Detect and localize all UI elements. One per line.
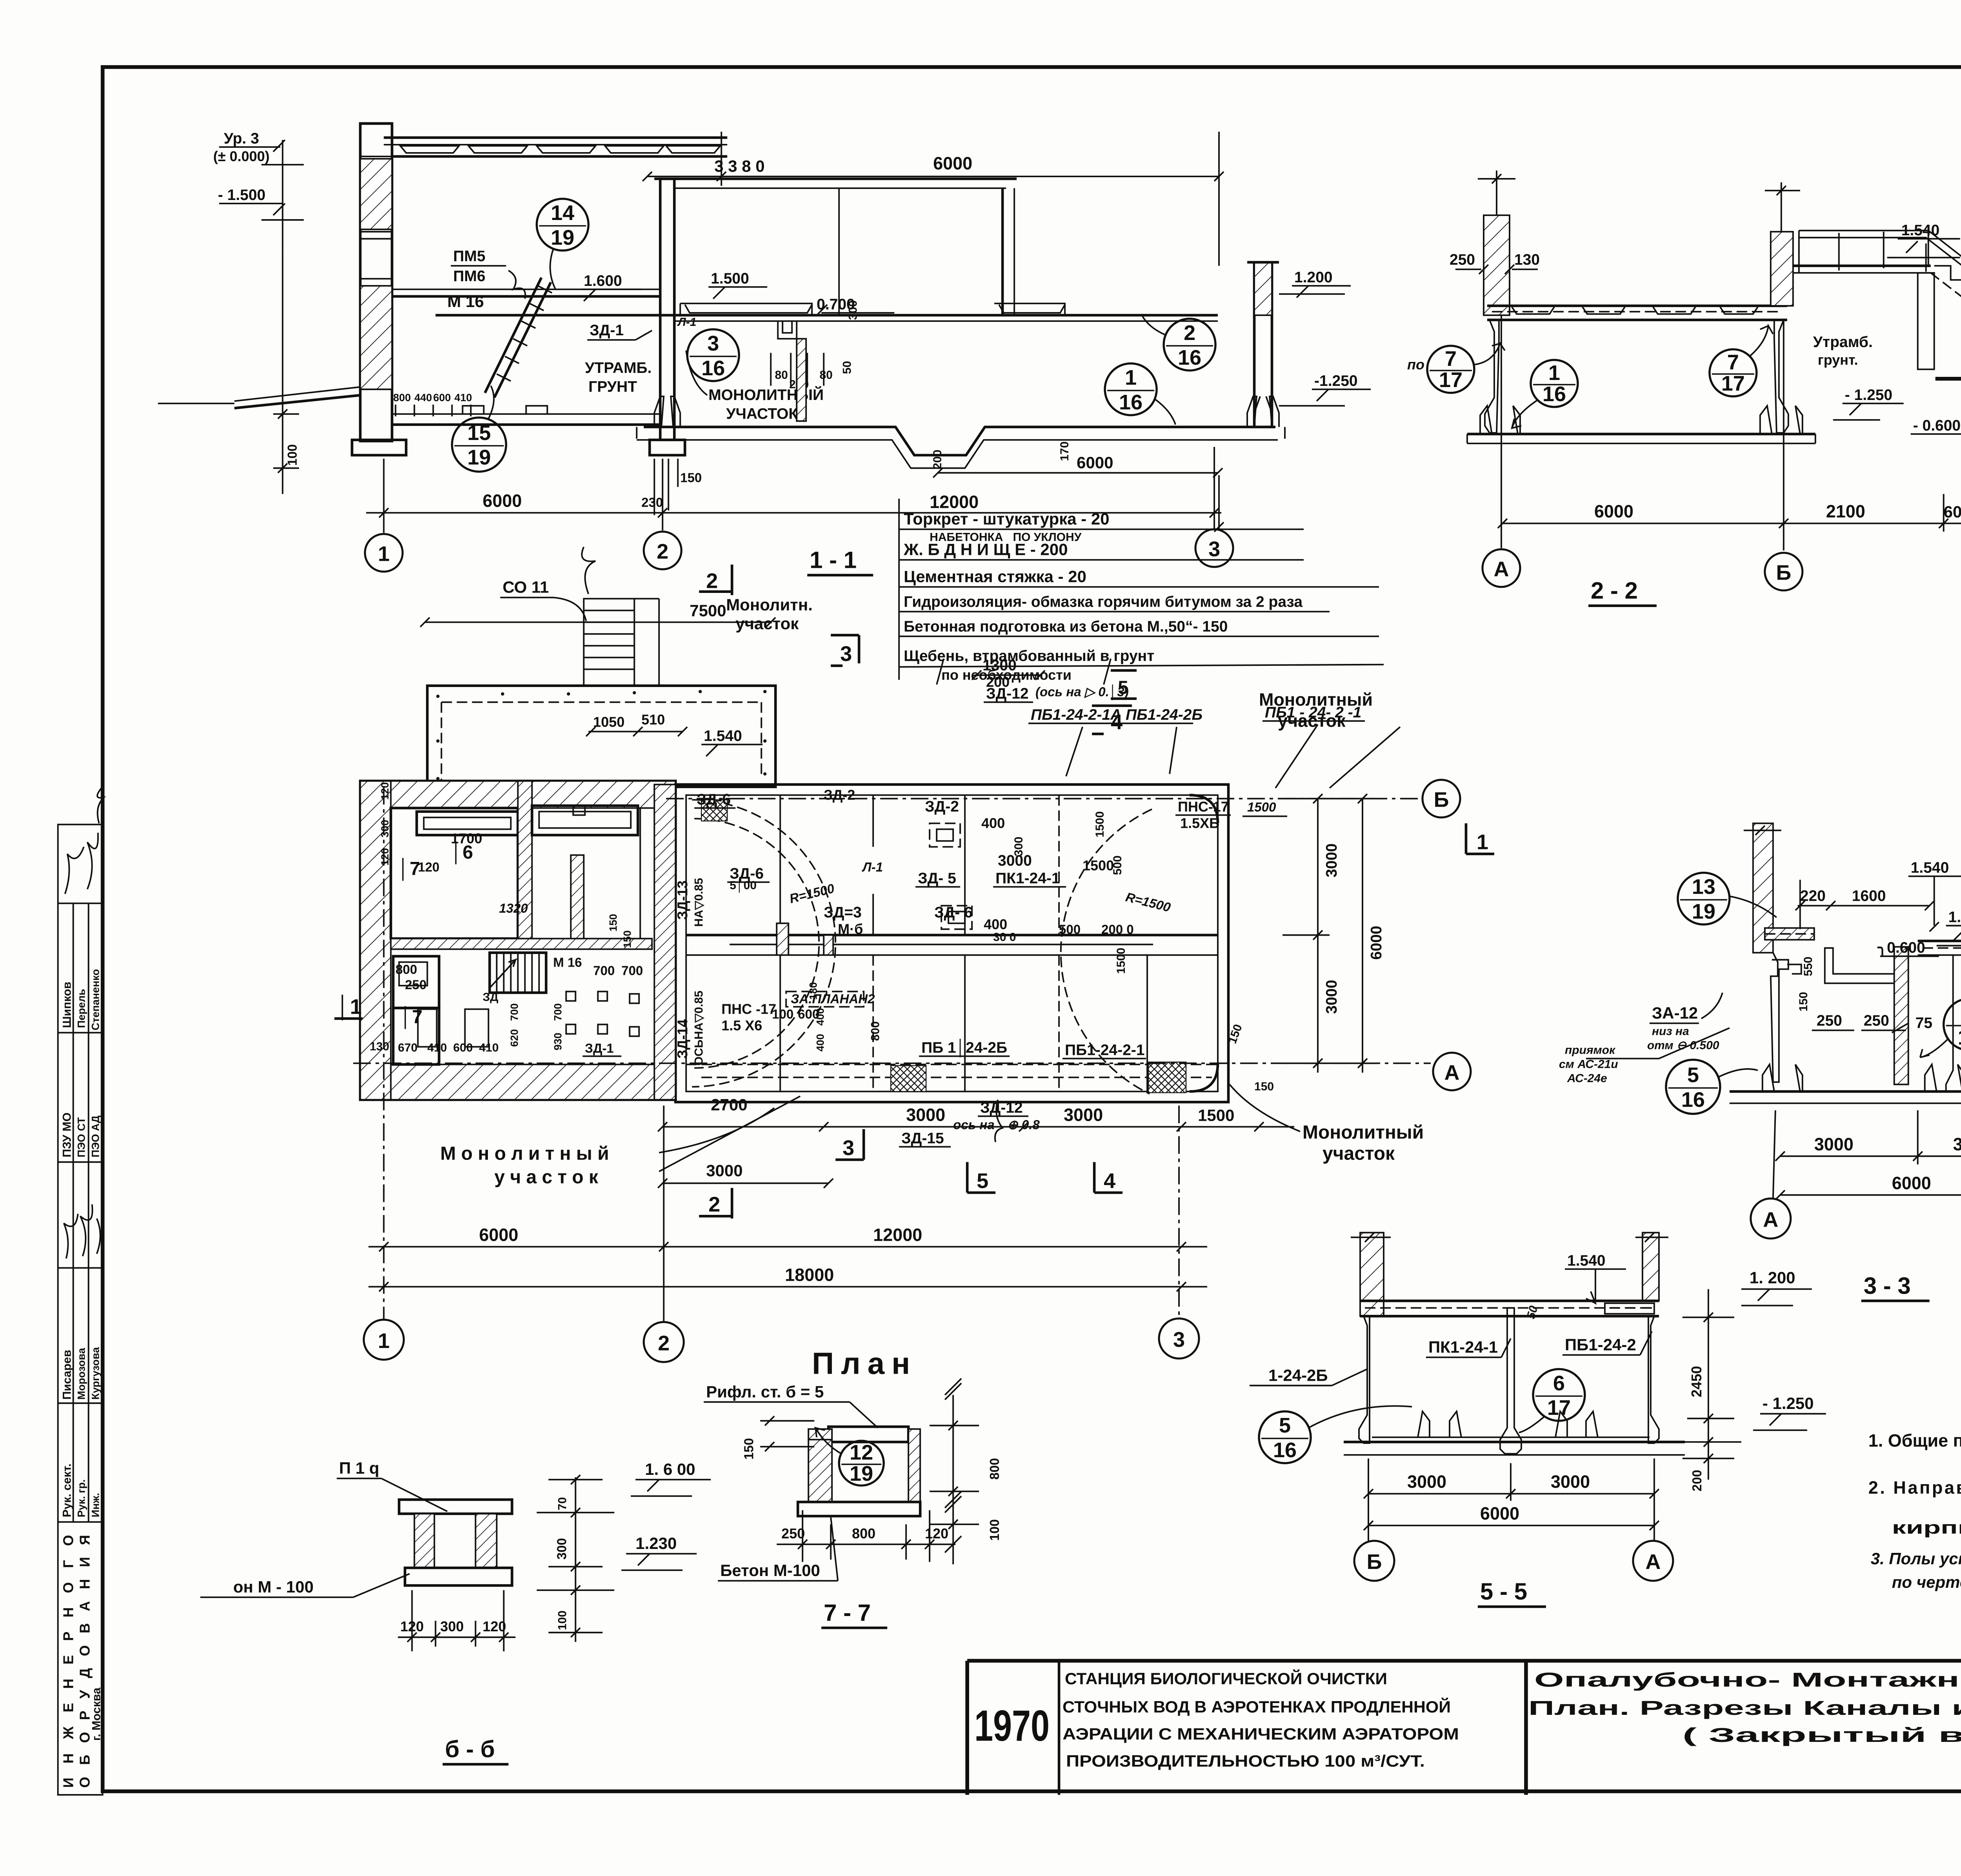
- svg-text:550: 550: [1802, 956, 1815, 976]
- left hatched column: [1360, 1232, 1384, 1316]
- svg-text:100: 100: [556, 1611, 569, 1630]
- svg-text:3000: 3000: [706, 1161, 742, 1180]
- svg-text:1500: 1500: [1247, 800, 1276, 814]
- svg-text:1500: 1500: [1093, 811, 1106, 838]
- svg-text:17: 17: [1547, 1396, 1571, 1420]
- middle hatched column: [1771, 232, 1793, 306]
- svg-text:План: План: [812, 1346, 917, 1380]
- svg-text:16: 16: [1543, 382, 1566, 406]
- fraction circle 15/19: [452, 386, 506, 472]
- svg-text:620: 620: [508, 1029, 520, 1047]
- svg-text:100: 100: [987, 1519, 1002, 1541]
- svg-text:1700: 1700: [451, 831, 482, 847]
- tank left wall: [1485, 320, 1499, 433]
- svg-text:120: 120: [379, 782, 391, 800]
- fraction circle 5/16: [1666, 1060, 1758, 1114]
- svg-text:700: 700: [593, 963, 615, 978]
- svg-text:150: 150: [621, 930, 633, 948]
- svg-text:2450: 2450: [1688, 1366, 1705, 1397]
- svg-text:6000: 6000: [1594, 502, 1634, 522]
- svg-text:17: 17: [1721, 372, 1745, 395]
- svg-text:1-24-2Б: 1-24-2Б: [1268, 1366, 1328, 1384]
- svg-text:ЗД- 6: ЗД- 6: [934, 904, 973, 921]
- wall between rooms hatched: [518, 781, 532, 939]
- steps: [1934, 266, 1961, 365]
- svg-text:по: по: [1407, 356, 1424, 373]
- svg-text:ЗА-12: ЗА-12: [1652, 1003, 1698, 1022]
- U channel shapes top: [1825, 948, 1906, 983]
- svg-text:3000: 3000: [1407, 1472, 1446, 1492]
- room2 inner hatched stub wall: [571, 855, 584, 939]
- hatched pier under monolith: [797, 339, 806, 421]
- center wall ПК1-24-1: [1500, 1308, 1521, 1454]
- small store rooms bottom left: [393, 956, 439, 1008]
- dashed mixing circle left: [692, 800, 835, 1087]
- svg-text:А: А: [1444, 1061, 1459, 1084]
- svg-text:130: 130: [370, 1040, 389, 1053]
- svg-text:2100: 2100: [1826, 502, 1865, 522]
- svg-text:16: 16: [1273, 1438, 1297, 1462]
- axis circle 2: [644, 532, 681, 569]
- walls: [1359, 1316, 1370, 1443]
- svg-text:Монолитный: Монолитный: [1302, 1122, 1424, 1143]
- svg-text:5│00: 5│00: [729, 878, 757, 893]
- svg-text:1: 1: [1548, 361, 1560, 385]
- svg-text:120: 120: [418, 860, 440, 874]
- right hatched column: [1643, 1232, 1659, 1301]
- svg-text:14: 14: [551, 201, 574, 225]
- svg-text:ПК1-24-1: ПК1-24-1: [995, 870, 1060, 887]
- svg-text:2. Направляющие перегородки: 2. Направляющие перегородки выполнить из: [1868, 1478, 1961, 1498]
- dashed arc right: [1061, 809, 1152, 1094]
- svg-text:-1.250: -1.250: [1314, 373, 1358, 389]
- svg-text:150: 150: [680, 471, 702, 485]
- svg-text:СТОЧНЫХ ВОД В АЭРОТЕНКАХ ПРОДЛ: СТОЧНЫХ ВОД В АЭРОТЕНКАХ ПРОДЛЕННОЙ: [1062, 1697, 1451, 1716]
- svg-text:А: А: [1645, 1550, 1661, 1574]
- svg-text:2 - 2: 2 - 2: [1591, 578, 1638, 604]
- fraction circle 6/17: [1519, 1369, 1585, 1432]
- svg-text:ЗД-2: ЗД-2: [925, 798, 959, 815]
- svg-text:⊕ 0.8: ⊕ 0.8: [1007, 1117, 1040, 1132]
- svg-text:- 0.600: - 0.600: [1913, 417, 1961, 434]
- svg-text:150: 150: [741, 1438, 756, 1460]
- fraction circle 2/16: [1142, 316, 1215, 371]
- svg-text:Б: Б: [1776, 561, 1791, 585]
- hatched bits near center channel: [777, 923, 788, 955]
- svg-text:230: 230: [641, 495, 663, 510]
- svg-text:150: 150: [607, 914, 619, 931]
- svg-text:16: 16: [1958, 1025, 1961, 1049]
- fraction circle 1/16: [1512, 360, 1578, 428]
- svg-text:1: 1: [378, 542, 390, 566]
- svg-text:12: 12: [850, 1441, 873, 1464]
- platform right part: [1918, 940, 1961, 941]
- column axis 2: [660, 179, 674, 440]
- svg-text:отм ⊖ 0.500: отм ⊖ 0.500: [1647, 1039, 1719, 1052]
- svg-text:3 - 3: 3 - 3: [1864, 1272, 1911, 1299]
- svg-text:3000: 3000: [1064, 1105, 1103, 1125]
- left column axis A hatched: [1484, 215, 1510, 315]
- svg-text:1 - 1: 1 - 1: [810, 547, 857, 573]
- wall base flares: [654, 396, 680, 427]
- handwritten visas top: [65, 833, 98, 894]
- svg-text:410: 410: [454, 392, 472, 404]
- svg-text:1.540: 1.540: [1901, 222, 1940, 239]
- svg-text:3000: 3000: [1953, 1134, 1961, 1154]
- svg-text:300: 300: [554, 1538, 569, 1560]
- handwritten visas middle: [64, 1204, 100, 1258]
- svg-text:ГРУНТ: ГРУНТ: [588, 378, 637, 395]
- room 2 upper fixture: [532, 806, 638, 835]
- rounded right end corners: [1190, 795, 1218, 1092]
- svg-text:Инж.: Инж.: [90, 1493, 102, 1517]
- svg-text:800: 800: [987, 1458, 1002, 1480]
- svg-text:3000: 3000: [1814, 1134, 1854, 1154]
- svg-text:1.150: 1.150: [1948, 909, 1961, 926]
- right vertical dim 800 100 with breaks: [953, 1395, 953, 1564]
- bottom dims: [1368, 1493, 1654, 1494]
- svg-text:см АС-21и: см АС-21и: [1559, 1058, 1618, 1071]
- axis circles: [1751, 1198, 1791, 1238]
- svg-text:А: А: [1763, 1208, 1778, 1231]
- svg-text:( Закрытый вариант ).: ( Закрытый вариант ).: [1683, 1724, 1961, 1746]
- svg-text:План. Разрезы Каналы и фундаме: План. Разрезы Каналы и фундаменты: [1528, 1697, 1961, 1719]
- svg-text:1.230: 1.230: [635, 1534, 677, 1552]
- svg-text:600: 600: [1944, 503, 1961, 521]
- right wall axis 3: [1254, 262, 1272, 427]
- outer walls tank: [675, 785, 1228, 1102]
- svg-text:1.540: 1.540: [1567, 1252, 1606, 1269]
- svg-text:1970: 1970: [974, 1701, 1050, 1750]
- svg-text:250: 250: [1450, 251, 1475, 268]
- lower floor strip with stops: [392, 414, 659, 414]
- svg-text:1.200: 1.200: [1294, 269, 1333, 286]
- svg-text:Кургузова: Кургузова: [90, 1347, 102, 1400]
- main bottom dim line 6000 / 12000: [366, 513, 1222, 513]
- svg-text:Монолитн.: Монолитн.: [726, 596, 813, 614]
- svg-text:ПБ 1│24-2Б: ПБ 1│24-2Б: [921, 1038, 1007, 1057]
- svg-text:7: 7: [1445, 347, 1457, 371]
- svg-text:Морозова: Морозова: [76, 1347, 87, 1400]
- svg-text:ПНС -17: ПНС -17: [721, 1001, 776, 1017]
- svg-text:у ч а с т о к: у ч а с т о к: [494, 1167, 598, 1187]
- wall right of beam: [1002, 188, 1003, 315]
- svg-text:5 - 5: 5 - 5: [1480, 1578, 1527, 1605]
- wall edge under roof: [839, 188, 839, 315]
- stairs ПМ5 ladder: [485, 278, 541, 393]
- svg-text:300: 300: [379, 820, 391, 838]
- svg-text:Бетонная подготовка из бетона: Бетонная подготовка из бетона М.,50“- 15…: [904, 618, 1228, 635]
- svg-text:16: 16: [701, 356, 725, 380]
- svg-text:200: 200: [1690, 1470, 1704, 1491]
- fraction circle 7/17 right: [1710, 326, 1773, 396]
- svg-text:6000: 6000: [479, 1225, 518, 1245]
- svg-text:Б: Б: [1367, 1550, 1382, 1574]
- fraction circle 13/19: [1678, 873, 1777, 925]
- svg-text:ПЗУ МО: ПЗУ МО: [61, 1113, 74, 1157]
- svg-text:ЗА.ПЛАНАН2: ЗА.ПЛАНАН2: [791, 991, 875, 1006]
- svg-text:3000: 3000: [1323, 843, 1340, 878]
- left wall with step: [1771, 953, 1788, 1082]
- svg-text:1500: 1500: [1115, 948, 1128, 974]
- roof panel dishes: [400, 146, 720, 153]
- bottom slab: [1467, 434, 1815, 434]
- svg-text:5: 5: [977, 1169, 988, 1192]
- svg-text:200: 200: [986, 674, 1010, 690]
- svg-text:600: 600: [453, 1041, 473, 1054]
- axis verticals: [384, 787, 384, 1320]
- right hatched wall: [908, 1429, 920, 1502]
- svg-text:│7: │7: [400, 1006, 423, 1029]
- svg-text:100: 100: [285, 444, 300, 466]
- svg-text:700: 700: [621, 963, 643, 978]
- floor panels row: [680, 304, 812, 315]
- svg-text:│7: │7: [398, 858, 420, 881]
- svg-text:участок: участок: [735, 614, 799, 633]
- svg-text:Рук. гр.: Рук. гр.: [76, 1479, 87, 1517]
- svg-text:ОСЬНА▽0.85: ОСЬНА▽0.85: [692, 991, 705, 1065]
- svg-text:1.5 Х6: 1.5 Х6: [721, 1017, 762, 1033]
- svg-text:400: 400: [814, 1034, 826, 1051]
- fraction circle 3/16: [687, 329, 739, 381]
- svg-text:1: 1: [1477, 831, 1488, 854]
- svg-text:6000: 6000: [1480, 1503, 1519, 1523]
- svg-text:ЗД- 5: ЗД- 5: [918, 870, 956, 887]
- svg-text:19: 19: [850, 1462, 873, 1485]
- svg-text:120: 120: [379, 848, 391, 866]
- axis circles: [1354, 1541, 1394, 1581]
- svg-text:2700: 2700: [711, 1095, 747, 1114]
- svg-text:1. 200: 1. 200: [1750, 1268, 1795, 1287]
- svg-text:2: 2: [657, 540, 668, 564]
- bottom slab: [1344, 1442, 1685, 1442]
- top slab with dishes: [1487, 305, 1787, 306]
- svg-text:Монолитный: Монолитный: [1259, 690, 1373, 710]
- svg-text:410: 410: [479, 1041, 498, 1054]
- svg-text:участок: участок: [1278, 711, 1346, 731]
- svg-text:6: 6: [1553, 1371, 1565, 1395]
- svg-text:800: 800: [393, 392, 411, 404]
- svg-text:АЭРАЦИИ С МЕХАНИЧЕСКИМ АЭРАТОР: АЭРАЦИИ С МЕХАНИЧЕСКИМ АЭРАТОРОМ: [1062, 1725, 1459, 1743]
- fraction circle 5/16 left edge: [1259, 1406, 1412, 1463]
- svg-text:Цементная стяжка - 20: Цементная стяжка - 20: [904, 567, 1086, 586]
- svg-text:Перель: Перель: [76, 989, 87, 1028]
- svg-text:2: 2: [658, 1331, 669, 1355]
- svg-text:3: 3: [1173, 1328, 1185, 1351]
- svg-text:100: 100: [772, 1007, 793, 1021]
- svg-text:250: 250: [405, 977, 427, 992]
- svg-text:2: 2: [1184, 321, 1195, 345]
- hatched insert panel right: [1605, 1303, 1654, 1314]
- svg-text:ЗД-2: ЗД-2: [824, 787, 855, 803]
- svg-text:╮0.600: ╮0.600: [1877, 939, 1925, 957]
- svg-text:7: 7: [1727, 351, 1739, 374]
- svg-text:150: 150: [1797, 992, 1810, 1011]
- svg-text:3000: 3000: [998, 853, 1032, 869]
- svg-text:ЗД-6: ЗД-6: [697, 791, 731, 808]
- svg-text:б - б: б - б: [445, 1736, 495, 1762]
- svg-text:13: 13: [1692, 875, 1715, 899]
- svg-text:5: 5: [1687, 1063, 1699, 1087]
- svg-text:ось на: ось на: [953, 1117, 995, 1132]
- equipment pads: [418, 1009, 437, 1047]
- svg-text:Щебень, втрамбованный в грунт: Щебень, втрамбованный в грунт: [904, 648, 1154, 665]
- svg-text:грунт.: грунт.: [1818, 352, 1858, 368]
- svg-text:6000: 6000: [482, 491, 522, 511]
- svg-text:19: 19: [551, 226, 574, 249]
- svg-text:50: 50: [840, 361, 853, 374]
- svg-text:6000: 6000: [1368, 926, 1385, 960]
- svg-text:ПБ1-24-2: ПБ1-24-2: [1565, 1335, 1636, 1354]
- thin wall right of center: [1946, 955, 1961, 1091]
- svg-text:4: 4: [1104, 1169, 1115, 1192]
- roof slab left building: [384, 137, 728, 138]
- svg-text:1600: 1600: [1852, 888, 1886, 905]
- fraction circle 4/16: [1920, 998, 1961, 1057]
- svg-text:75: 75: [1916, 1014, 1932, 1031]
- svg-text:ПК1-24-1: ПК1-24-1: [1428, 1338, 1498, 1356]
- svg-text:130: 130: [1514, 251, 1540, 268]
- axis lines down: [384, 459, 384, 533]
- svg-text:│1: │1: [337, 994, 362, 1020]
- svg-text:г. Москва: г. Москва: [90, 1687, 103, 1741]
- svg-text:670: 670: [398, 1041, 418, 1054]
- bottom slab: [1730, 1091, 1961, 1092]
- svg-text:510: 510: [641, 712, 665, 728]
- svg-text:Рифл. ст. б = 5: Рифл. ст. б = 5: [706, 1382, 824, 1401]
- svg-text:М 16: М 16: [553, 955, 582, 969]
- svg-text:1. 6 00: 1. 6 00: [645, 1460, 695, 1478]
- center hatched wall: [1894, 947, 1908, 1084]
- svg-text:180: 180: [807, 982, 819, 1000]
- side walls hatched: [415, 1514, 435, 1568]
- svg-text:5: 5: [1118, 678, 1128, 698]
- svg-text:Шипков: Шипков: [61, 982, 74, 1028]
- dim line top 3380 6000: [647, 176, 1219, 177]
- svg-text:16: 16: [1119, 391, 1142, 414]
- bottom slab: [405, 1568, 512, 1585]
- axis Б and А circles right: [666, 798, 1421, 799]
- svg-text:3000: 3000: [906, 1105, 945, 1125]
- ramp to ground: [235, 387, 360, 401]
- left hatched column: [1753, 823, 1773, 953]
- vertical dim chain 70 300 100: [575, 1477, 576, 1642]
- svg-text:приямок: приямок: [1565, 1043, 1616, 1056]
- svg-text:170: 170: [1058, 442, 1071, 461]
- floor level 0.700 long line: [435, 315, 1218, 316]
- svg-text:ЗД-14: ЗД-14: [674, 1019, 690, 1058]
- svg-text:- 1.250: - 1.250: [1845, 387, 1892, 404]
- svg-text:930: 930: [552, 1033, 564, 1050]
- svg-text:М 16: М 16: [447, 292, 484, 311]
- upper floor slab left of column 2 (1.600 level): [392, 289, 660, 290]
- svg-text:ПБ1-24-2-1: ПБ1-24-2-1: [1065, 1042, 1144, 1058]
- teeth bases: [1418, 1411, 1461, 1437]
- svg-text:- 1.500: - 1.500: [218, 187, 266, 204]
- beam on column 2: [674, 178, 1017, 179]
- svg-text:1: 1: [1125, 366, 1137, 389]
- svg-text:ЗД-15: ЗД-15: [901, 1130, 944, 1147]
- svg-text:16: 16: [1178, 346, 1201, 369]
- svg-text:(± 0.000): (± 0.000): [213, 148, 270, 164]
- svg-text:18000: 18000: [785, 1265, 834, 1285]
- svg-text:участок: участок: [1322, 1143, 1395, 1164]
- column pads grid right room: [566, 991, 575, 1001]
- svg-text:А: А: [1493, 558, 1509, 581]
- small equipment frames center: [930, 823, 960, 847]
- svg-text:30 0: 30 0: [993, 931, 1016, 943]
- bottom dims 6000 2100 600: [1503, 523, 1961, 524]
- dim 100 vertical: [273, 253, 299, 494]
- svg-text:ПМ5: ПМ5: [453, 248, 485, 265]
- wall between building and tank hatched: [654, 785, 675, 1100]
- svg-text:17: 17: [1439, 368, 1463, 392]
- svg-text:Л-1: Л-1: [862, 860, 883, 874]
- svg-text:200 0: 200 0: [1101, 922, 1134, 937]
- crosshatch patches: [891, 1065, 926, 1091]
- svg-text:Писарев: Писарев: [61, 1350, 74, 1400]
- svg-text:1050: 1050: [593, 714, 624, 730]
- svg-text:16: 16: [1681, 1088, 1705, 1111]
- svg-text:250: 250: [1864, 1012, 1889, 1029]
- svg-text:3000: 3000: [1323, 980, 1340, 1014]
- svg-text:400: 400: [984, 916, 1007, 933]
- svg-text:12000: 12000: [873, 1225, 922, 1245]
- svg-text:400: 400: [814, 1008, 826, 1025]
- svg-text:150: 150: [1254, 1080, 1274, 1093]
- svg-text:УЧАСТОК: УЧАСТОК: [726, 405, 798, 422]
- svg-text:УТРАМБ.: УТРАМБ.: [585, 360, 651, 376]
- tank bottom slab with sump: [644, 427, 1275, 455]
- svg-text:250: 250: [1817, 1012, 1842, 1029]
- svg-text:400: 400: [981, 815, 1005, 831]
- svg-text:1500: 1500: [1198, 1106, 1234, 1124]
- svg-text:2: 2: [706, 569, 718, 593]
- svg-text:Утрамб.: Утрамб.: [1813, 334, 1873, 351]
- svg-text:800: 800: [396, 962, 417, 976]
- svg-text:ЗД-13: ЗД-13: [674, 880, 690, 920]
- svg-text:120: 120: [482, 1618, 506, 1634]
- svg-text:80: 80: [775, 369, 788, 382]
- base teeth: [1480, 406, 1520, 434]
- axis dim lines bottom: [369, 1246, 1208, 1247]
- svg-text:1500: 1500: [1082, 858, 1114, 874]
- svg-text:ЗД-1: ЗД-1: [589, 322, 624, 339]
- svg-text:ПЭО СТ: ПЭО СТ: [76, 1117, 87, 1157]
- svg-text:500: 500: [1111, 856, 1124, 875]
- svg-text:1.600: 1.600: [584, 273, 622, 289]
- svg-text:1.5ХБ: 1.5ХБ: [1180, 815, 1219, 831]
- svg-text:6000: 6000: [933, 153, 972, 173]
- svg-text:Степаненко: Степаненко: [90, 969, 102, 1030]
- svg-text:ЗД=3: ЗД=3: [824, 904, 862, 921]
- stairs СО11 in plan: [584, 599, 634, 686]
- svg-text:4: 4: [1111, 711, 1122, 734]
- svg-text:О Б О Р У Д О В А Н И Я: О Б О Р У Д О В А Н И Я: [77, 1535, 93, 1788]
- fraction circle 1/16: [1105, 364, 1175, 425]
- svg-text:Ж. Б Д Н И Щ Е - 200: Ж. Б Д Н И Щ Е - 200: [903, 540, 1068, 559]
- svg-text:3000: 3000: [1551, 1472, 1590, 1492]
- svg-text:ПНС-17: ПНС-17: [1178, 799, 1229, 815]
- svg-text:3: 3: [1208, 538, 1220, 561]
- fraction circle 12/19: [815, 1428, 884, 1485]
- svg-text:1.500: 1.500: [711, 270, 749, 287]
- room 1 upper-left inner: [391, 808, 518, 939]
- svg-text:7500: 7500: [689, 602, 726, 620]
- svg-text:1. Общие примечания см на: 1. Общие примечания см на листе АС-17.: [1868, 1431, 1961, 1451]
- top plate: [828, 1427, 908, 1442]
- svg-text:1: 1: [378, 1329, 390, 1352]
